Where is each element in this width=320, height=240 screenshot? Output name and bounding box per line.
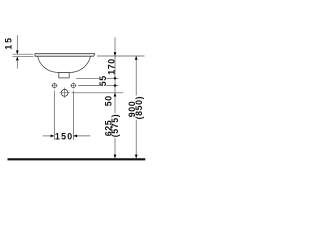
dimension 150 right line and arrow — [73, 135, 90, 137]
rim extension line right — [97, 55, 145, 57]
arrow up at rim for 900 — [135, 56, 138, 60]
label (575) white backing — [112, 113, 119, 138]
extension line drain bottom — [76, 77, 99, 79]
arrow down at floor for 900 — [135, 155, 138, 159]
basin rim (side view) — [35, 54, 95, 57]
svg-text:55: 55 — [98, 75, 108, 86]
dot terminator at 78.3 — [114, 77, 116, 79]
svg-text:150: 150 — [55, 131, 74, 141]
extension line faucet holes — [78, 85, 99, 87]
svg-text:50: 50 — [103, 95, 113, 106]
dimension 15 line lower — [16, 57, 18, 69]
svg-text:(850): (850) — [134, 96, 144, 120]
label (850) white backing — [135, 95, 142, 119]
dimension 15 arrow up — [16, 57, 19, 61]
dimension 900 line — [135, 56, 137, 158]
arrow up at drain line — [114, 93, 117, 97]
drain hole (large circle with cross) — [59, 88, 69, 98]
dimension 150 left line and arrow — [43, 135, 55, 137]
basin bowl outer curve — [38, 56, 91, 72]
extension line drain hole — [72, 92, 124, 94]
arrow down at rim — [114, 52, 117, 56]
drain outlet — [59, 73, 69, 78]
faucet hole left (small circle with cross) — [51, 82, 57, 88]
centerline right faucet hole — [72, 91, 74, 140]
svg-text:15: 15 — [3, 36, 13, 49]
dimension 15 line upper — [16, 35, 18, 54]
arrow down at floor — [114, 155, 117, 159]
dot terminator at 85.6 — [114, 84, 116, 86]
floor line — [8, 158, 146, 160]
main right dimension line — [114, 37, 116, 158]
faucet hole right (small circle with cross) — [70, 82, 76, 88]
left extension lines (rim thickness) — [13, 53, 34, 55]
svg-text:170: 170 — [107, 58, 117, 74]
centerline left faucet hole — [53, 91, 55, 140]
dimension 15 arrow down — [16, 51, 19, 55]
svg-text:(575): (575) — [110, 114, 120, 138]
